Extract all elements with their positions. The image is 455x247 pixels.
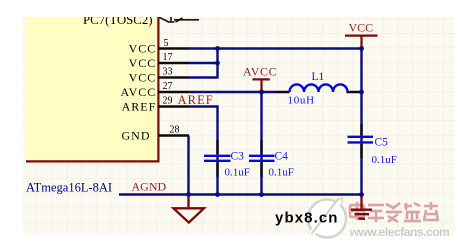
- earth ground symbol right: [351, 195, 372, 219]
- svg-text:AGND: AGND: [132, 180, 167, 194]
- svg-text:0.1uF: 0.1uF: [372, 154, 397, 166]
- svg-text:AVCC: AVCC: [121, 85, 157, 99]
- wire pin5 to VCC rail: [189, 47, 362, 49]
- capacitor C5 plates: [348, 137, 374, 143]
- junction nodes on AGND: [186, 192, 191, 197]
- junction node pins5/17: [215, 46, 220, 51]
- svg-text:17: 17: [163, 52, 173, 63]
- capacitor C4 plates: [249, 156, 275, 161]
- vertical wire AVCC node to C4 and AGND: [260, 92, 262, 195]
- svg-text:C3: C3: [231, 150, 245, 162]
- cut-off crystal marks: [160, 16, 200, 23]
- vertical wire GND pin down: [187, 136, 189, 196]
- pin VCC 5: [158, 47, 189, 49]
- svg-text:VCC: VCC: [349, 21, 374, 35]
- svg-text:10uH: 10uH: [288, 94, 315, 106]
- inductor L1 coil: [290, 84, 348, 92]
- pin VCC 17: [158, 62, 189, 64]
- svg-text:C4: C4: [275, 150, 289, 162]
- svg-text:27: 27: [163, 81, 173, 92]
- svg-text:VCC: VCC: [129, 71, 157, 85]
- pin AVCC 27: [158, 91, 189, 93]
- capacitor C5 pins (black): [360, 124, 362, 158]
- top white crop band: [0, 0, 455, 17]
- junction node L1 out: [359, 90, 364, 95]
- wire pin33 stub: [189, 76, 218, 78]
- vertical wire joining pins 5,17,33: [216, 49, 218, 79]
- vertical wire AREF to C3 and AGND: [216, 107, 218, 196]
- capacitor C3 pins (black): [216, 140, 218, 177]
- AGND horizontal wire: [119, 193, 363, 195]
- inductor L1 black pins: [276, 91, 361, 93]
- svg-text:29: 29: [163, 96, 173, 107]
- svg-text:ybx8.cn: ybx8.cn: [275, 209, 339, 226]
- power port VCC: [345, 21, 378, 49]
- svg-text:28: 28: [170, 125, 180, 136]
- IC U? ATmega16L body: [26, 10, 158, 162]
- watermark logo circle: [308, 198, 346, 237]
- wire pin27 to AVCC node: [189, 91, 276, 93]
- capacitor C3 plates: [204, 156, 231, 161]
- IC bottom border: [26, 160, 160, 162]
- svg-text:L1: L1: [312, 71, 325, 83]
- svg-text:GND: GND: [122, 129, 151, 143]
- svg-text:ATmega16L-8AI: ATmega16L-8AI: [26, 180, 112, 194]
- capacitor C4 pins (black): [260, 140, 262, 177]
- svg-text:0.1uF: 0.1uF: [225, 166, 250, 178]
- ground symbol (triangle): [174, 195, 205, 223]
- svg-text:33: 33: [163, 67, 173, 78]
- svg-text:AVCC: AVCC: [243, 65, 277, 79]
- pin VCC 33: [158, 76, 189, 78]
- svg-text:0.1uF: 0.1uF: [269, 166, 294, 178]
- svg-text:VCC: VCC: [129, 42, 157, 56]
- junction node AVCC: [259, 90, 264, 95]
- svg-text:C5: C5: [375, 136, 389, 148]
- svg-text:VCC: VCC: [129, 56, 157, 70]
- junction node VCC: [359, 46, 364, 51]
- power port AVCC: [243, 65, 277, 92]
- pin AREF 29: [158, 105, 189, 107]
- wire to PC7: [174, 19, 199, 21]
- wire pin29 AREF stub: [189, 105, 219, 107]
- wire pin17 stub: [189, 62, 218, 64]
- VCC rail vertical wire: [360, 49, 362, 196]
- pin GND 28: [158, 134, 189, 136]
- svg-text:AREF: AREF: [122, 100, 157, 114]
- svg-text:5: 5: [164, 38, 169, 49]
- svg-text:AREF: AREF: [178, 93, 214, 107]
- IC right border: [157, 10, 159, 162]
- svg-text:www.elecfans.com: www.elecfans.com: [349, 225, 451, 239]
